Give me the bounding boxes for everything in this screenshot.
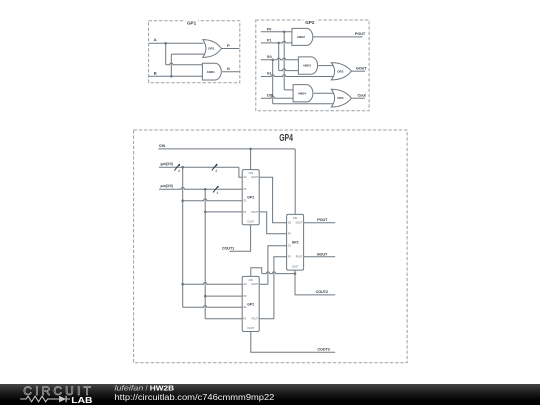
and-gate AND2	[292, 28, 313, 45]
svg-text:G: G	[227, 66, 230, 71]
or-gate OR3	[331, 89, 351, 107]
svg-text:HW2B: HW2B	[150, 384, 174, 393]
svg-text:GOUT: GOUT	[317, 252, 328, 256]
svg-text:GP1: GP1	[187, 21, 197, 26]
GP1 title label	[186, 18, 199, 25]
svg-text:COUT: COUT	[247, 327, 254, 330]
svg-text:POUT: POUT	[317, 218, 328, 222]
wire GOUT output	[351, 70, 365, 72]
svg-text:P: P	[227, 43, 230, 48]
node g-in tap U3.G0	[181, 283, 184, 286]
svg-text:/: /	[145, 384, 148, 393]
node g-in junction	[181, 166, 184, 169]
wire U3 POUT to U2 P1	[259, 257, 286, 319]
svg-text:POUT: POUT	[355, 32, 366, 36]
node CIN junction	[249, 148, 252, 151]
subcircuit dashed box GP1	[149, 21, 240, 83]
wire p-in vertical	[204, 189, 206, 319]
wire G1 to OR2	[261, 75, 334, 77]
svg-text:B: B	[154, 71, 157, 76]
svg-text:AND3: AND3	[303, 64, 311, 68]
wire POUT output	[313, 36, 363, 38]
wire AND4 to OR3	[314, 92, 334, 94]
or-gate OR2	[331, 63, 351, 80]
wire U1 GOUT to U2 G0	[259, 177, 286, 223]
svg-text:GP4: GP4	[279, 133, 293, 144]
wire U3 COUT3 out	[251, 332, 335, 353]
svg-text:GOUT: GOUT	[295, 222, 302, 225]
svg-text:COUT1: COUT1	[222, 246, 234, 250]
wire AND3 to OR2	[318, 65, 334, 67]
svg-text:LAB: LAB	[71, 395, 92, 405]
subcircuit dashed box GP4	[134, 130, 408, 363]
svg-text:GOUT: GOUT	[251, 283, 258, 286]
svg-text:POUT: POUT	[251, 211, 258, 214]
svg-text:POUT: POUT	[296, 256, 303, 259]
wire U2 COUT to U3 CIN	[262, 272, 295, 274]
node p-in tap U3.P0	[204, 295, 207, 298]
node A junction	[164, 42, 167, 45]
svg-text:CIN: CIN	[159, 144, 166, 148]
bus slash p-in	[213, 186, 218, 192]
wire G0 riser to OR3	[272, 60, 274, 104]
svg-text:http://circuitlab.com/c746cmmm: http://circuitlab.com/c746cmmm9mp22	[114, 392, 274, 401]
svg-text:GP2: GP2	[305, 20, 315, 25]
svg-text:COUT: COUT	[292, 266, 299, 269]
wire Cout output	[351, 97, 365, 99]
wire G output	[222, 71, 239, 73]
and-gate AND1	[202, 63, 221, 80]
svg-text:GP2: GP2	[247, 196, 254, 200]
svg-text:OR3: OR3	[337, 96, 344, 100]
subcircuit dashed box GP2	[256, 20, 369, 111]
wire p-in bus	[159, 187, 242, 189]
subcircuit instance U2 GP2	[287, 214, 304, 270]
wire U1 COUT1 out	[230, 225, 251, 252]
wire CIN	[158, 148, 295, 150]
svg-text:4: 4	[216, 191, 218, 195]
wire P0 riser to AND4	[283, 32, 285, 90]
wire CIN to AND4	[261, 96, 294, 98]
svg-text:OR1: OR1	[208, 47, 215, 51]
wire A to OR1	[149, 42, 204, 44]
wire A branch to AND1	[165, 43, 167, 65]
svg-text:GOUT: GOUT	[251, 176, 258, 179]
and-gate AND3	[298, 57, 317, 74]
svg-text:COUT: COUT	[247, 220, 254, 223]
svg-text:p-in[3:0]: p-in[3:0]	[160, 184, 172, 188]
node p-in junction	[204, 188, 207, 191]
bus slash g-in 2	[212, 164, 217, 170]
wire B branch to OR1	[170, 54, 172, 76]
wire CIN drop to U2	[294, 149, 296, 215]
logo diode symbol	[59, 395, 66, 402]
logo resistor symbol	[20, 396, 59, 402]
or-gate OR1	[203, 40, 222, 58]
svg-text:GOUT: GOUT	[356, 67, 367, 71]
svg-text:COUT2: COUT2	[316, 290, 328, 294]
wire CIN drop to U1	[250, 149, 252, 170]
wire P1 to AND2	[261, 41, 293, 43]
wire g-in vertical	[182, 167, 184, 307]
node U2 COUT junction	[294, 272, 297, 275]
footer bar	[0, 384, 540, 405]
wire tap to U1 G1	[183, 199, 243, 201]
wire B to AND1	[149, 75, 203, 77]
svg-text:AND2: AND2	[297, 35, 305, 39]
and-gate AND4	[293, 85, 313, 102]
svg-text:P0: P0	[267, 27, 271, 31]
svg-text:OR2: OR2	[337, 69, 344, 73]
svg-text:AND1: AND1	[207, 70, 215, 74]
node B junction	[170, 75, 173, 78]
svg-text:CIN: CIN	[249, 279, 253, 282]
svg-text:CIN: CIN	[293, 217, 297, 220]
svg-text:COUT3: COUT3	[317, 348, 329, 352]
wire tap to U3 G0	[183, 283, 243, 285]
wire P0 to AND2	[261, 31, 293, 33]
svg-text:GP2: GP2	[292, 241, 299, 245]
node P1 junction	[277, 42, 280, 45]
wire U2 COUT down	[294, 270, 296, 295]
wire POUT out	[304, 222, 336, 224]
svg-text:lufeifan: lufeifan	[114, 384, 143, 393]
svg-text:G0: G0	[267, 55, 272, 59]
node P0 junction	[283, 31, 286, 34]
wire COUT2 out	[295, 294, 335, 296]
bus slash g-in 1	[174, 164, 179, 170]
wire tap to U1 P1	[205, 211, 242, 213]
wire P1 riser to AND3	[278, 43, 280, 71]
svg-text:AND4: AND4	[298, 91, 306, 95]
svg-text:POUT: POUT	[251, 318, 258, 321]
wire G0 to AND3	[261, 58, 299, 60]
svg-text:G1: G1	[267, 72, 272, 76]
subcircuit instance U3 GP2	[242, 276, 259, 331]
node p-in tap U1.P1	[204, 211, 207, 214]
svg-text:GP2: GP2	[247, 302, 254, 306]
svg-text:P1: P1	[267, 39, 271, 43]
svg-text:A: A	[154, 37, 157, 42]
wire U3 GOUT to U2 G1	[259, 246, 286, 285]
wire U1 POUT to U2 P0	[259, 212, 286, 234]
svg-text:Cout: Cout	[357, 94, 366, 98]
svg-text:4: 4	[178, 169, 180, 173]
wire tap to U3 G1	[183, 306, 243, 308]
svg-text:CIN: CIN	[249, 172, 253, 175]
svg-text:g-in[3:0]: g-in[3:0]	[160, 162, 172, 166]
subcircuit instance U1 GP2	[242, 170, 259, 225]
svg-text:4: 4	[215, 169, 217, 173]
wire P output	[222, 48, 240, 50]
node g-in tap U1.G1	[181, 199, 184, 202]
node G0 junction	[271, 59, 274, 62]
GP2 title label	[304, 18, 317, 25]
wire tap to U3 P0	[205, 295, 242, 297]
wire g-in bus	[159, 166, 239, 168]
wire tap to U3 P1	[205, 318, 242, 320]
wire GOUT out	[304, 256, 336, 258]
